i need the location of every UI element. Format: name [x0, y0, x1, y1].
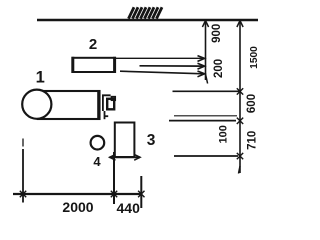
svg-text:600: 600 — [246, 94, 258, 113]
extension double line (boiler bottom) — [174, 115, 237, 117]
boiler bracket — [103, 95, 111, 119]
svg-text:2000: 2000 — [62, 199, 93, 215]
tank bottom arrow left head — [110, 154, 116, 160]
junction mark mid — [111, 191, 117, 197]
pump circle (item 4) — [91, 136, 105, 150]
svg-text:1500: 1500 — [249, 46, 260, 69]
mid vertical extension — [113, 152, 115, 204]
outer dimension line — [239, 20, 241, 173]
svg-text:4: 4 — [93, 154, 101, 169]
hatching on wall — [129, 7, 163, 18]
extension line B (radiator mid) — [140, 65, 205, 67]
inner top arrow — [202, 21, 208, 27]
inner bottom hook — [206, 74, 208, 84]
junction mark left — [20, 191, 26, 197]
extension line lower — [174, 155, 238, 157]
outer top arrow — [237, 21, 243, 27]
boiler cylinder (item 1) body — [38, 91, 100, 119]
boiler nozzle tab — [112, 97, 116, 101]
radiator rectangle (item 2) — [73, 57, 116, 73]
svg-text:100: 100 — [217, 125, 229, 143]
tank rectangle (item 3) — [115, 123, 135, 158]
junction mark right — [138, 191, 144, 197]
wall line (top) — [37, 19, 258, 21]
outer bottom hook — [239, 166, 241, 174]
svg-text:1: 1 — [36, 68, 45, 86]
boiler end bar — [97, 91, 100, 119]
svg-text:3: 3 — [147, 132, 156, 149]
inner dimension line — [205, 20, 207, 80]
boiler circle end — [22, 90, 51, 119]
arrow B — [198, 63, 205, 69]
arrow C — [198, 71, 205, 77]
junction mark 120 — [237, 118, 243, 124]
left extension line — [22, 139, 24, 203]
svg-text:900: 900 — [211, 24, 223, 43]
extension line C (radiator bottom) — [120, 71, 204, 74]
boiler nozzle square — [107, 99, 114, 110]
right vertical extension — [140, 176, 142, 208]
extension line boiler top — [173, 90, 240, 92]
tank bottom width arrow line — [110, 156, 141, 158]
junction mark 156 — [237, 153, 243, 159]
tank bottom arrow right head — [134, 154, 140, 160]
extension line A (radiator top) — [116, 57, 204, 59]
svg-text:2: 2 — [89, 36, 97, 53]
svg-text:200: 200 — [213, 59, 225, 78]
svg-text:440: 440 — [117, 200, 141, 216]
junction mark 91 — [237, 88, 243, 94]
svg-text:710: 710 — [247, 131, 259, 150]
arrow A — [198, 56, 205, 62]
second line — [169, 120, 236, 122]
bottom dimension line — [13, 193, 142, 195]
